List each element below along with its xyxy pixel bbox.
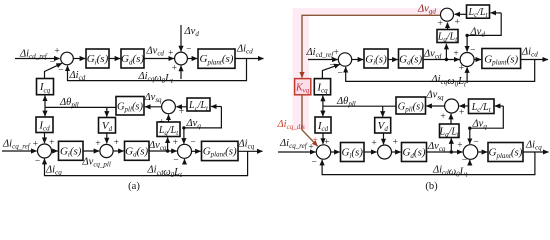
block Lc/Lt (a) [187, 98, 210, 111]
wire Gd to S3a with node v_cq (a) [149, 150, 177, 152]
svg-text:+: + [33, 139, 38, 149]
summing junction S4b (b q-axis error) [316, 145, 330, 159]
summing junction PLLb [445, 99, 459, 113]
block Lc/Lt top (b) [467, 5, 490, 18]
svg-text:−: − [58, 66, 63, 76]
svg-text:−: − [312, 157, 317, 167]
wire theta_pll horizontal (b) [323, 105, 396, 107]
block Icd (a) [36, 117, 53, 133]
wire pll sum output into Gpll (a) [145, 106, 162, 108]
wire S1b to Gi (b) [352, 59, 364, 61]
wire coupling term into S3b bottom (b) [469, 160, 471, 165]
wire Icd output into S4b top (b) [322, 133, 324, 144]
block Gi(s) q-axis (a) [59, 141, 84, 160]
wire S1a to Gi (a) [73, 58, 85, 60]
svg-text:Gi (s): Gi (s) [87, 53, 109, 66]
svg-text:+: + [179, 107, 184, 117]
svg-text:+: + [334, 48, 339, 58]
wire v_d corner path (b) [467, 13, 501, 36]
wire Gd to S2b with node v_cd (b) [423, 59, 460, 61]
svg-text:Gi (s): Gi (s) [60, 145, 82, 158]
svg-text:+: + [393, 137, 398, 147]
svg-text:+: + [308, 142, 313, 152]
summing junction S2b (b d-axis plant input) [460, 53, 474, 67]
wire Gplant to output d (a) [235, 58, 264, 60]
wire Lc/Lt output into Vgd sum (b) [455, 13, 467, 15]
block Lg/Lt (a) [157, 122, 180, 137]
wire theta to Icq (a) [44, 96, 46, 108]
block Vd (a) [99, 118, 116, 134]
svg-text:Gd (s): Gd (s) [125, 145, 148, 158]
summing junction S5a (a q-axis pll add) [100, 144, 113, 157]
svg-text:−: − [186, 45, 191, 55]
wire Lg/Lt output into PLLa bottom (a) [168, 115, 170, 122]
summing junction Vgd (b) [441, 8, 454, 21]
wire theta_pll horizontal (a) [45, 106, 116, 108]
svg-text:(a): (a) [128, 181, 140, 192]
svg-text:+: + [114, 138, 119, 148]
wire S3b to Gplant q (b) [478, 151, 487, 153]
node tap on v_cq wire (b) [450, 150, 453, 153]
wire input q-axis (b) [278, 151, 316, 153]
summing junction S2a (a d-axis plant input) [175, 52, 188, 65]
block Icq (b) [314, 79, 330, 95]
summing junction S1b (b d-axis error) [338, 53, 351, 66]
wire Icq output diagonal into S1b (b) [322, 64, 339, 78]
svg-text:Gd (s): Gd (s) [402, 147, 425, 160]
wire v_q down into S3a (a) [183, 128, 185, 144]
wire tap up into Lg/Lt (b) [445, 44, 447, 60]
svg-text:+: + [324, 137, 329, 147]
wire theta to Icd (a) [44, 107, 46, 116]
block Gpll(s) (a) [116, 97, 144, 116]
summing junction S1a (a d-axis error) [61, 52, 74, 65]
wire theta to Vd (a) [106, 107, 108, 116]
svg-text:Lc /Lt: Lc /Lt [188, 100, 209, 112]
block Vd (b) [375, 118, 391, 134]
summing junction S4a (a q-axis error) [38, 144, 52, 158]
wire Gi to S5a (a) [83, 150, 99, 152]
wire q-axis feedback (a) [45, 151, 248, 175]
wire v_d down into S2b (b) [466, 35, 468, 51]
wire v_q corner path (a) [184, 107, 222, 128]
svg-text:Gi (s): Gi (s) [341, 147, 363, 160]
svg-text:+: + [459, 64, 464, 74]
wire coupling term into S2a bottom (a) [180, 66, 182, 79]
wire S6b to Gd q (b) [392, 151, 401, 153]
block Gd(s) d-axis (b) [399, 49, 424, 68]
pink highlight band along Kvq feedforward path (horizontal) [295, 8, 441, 16]
block Lg/Lt top (b) [437, 30, 458, 43]
wire coupling term into S3a bottom (a) [184, 159, 186, 164]
node tap on v_cd wire (b) [445, 58, 448, 61]
svg-text:Gd (s): Gd (s) [399, 53, 422, 66]
summing junction S6b (b q-axis pll add) [378, 145, 392, 159]
wire v_d input into Lc/Lt (b) [491, 12, 502, 14]
svg-text:Gd (s): Gd (s) [121, 53, 144, 66]
wire Gplant to output d (b) [521, 59, 548, 61]
node delta-v_q junction (b) [468, 127, 471, 130]
block Icd (b) [315, 117, 331, 133]
wire Gd to S3b with node v_cq (b) [427, 151, 463, 153]
block Gplant(s) d-axis (a) [198, 49, 235, 68]
svg-text:Lg /Lt: Lg /Lt [158, 125, 179, 137]
svg-text:+: + [172, 64, 177, 74]
wire v_q down into S3b (b) [469, 128, 471, 144]
svg-text:+: + [440, 112, 445, 122]
wire v_q into Lc/Lt (a) [211, 106, 221, 108]
node tap on v_cq wire (a) [166, 149, 169, 152]
wire input q-axis (a) [2, 150, 37, 152]
block Lc/Lt q (b) [469, 99, 495, 114]
wire v_q corner path (b) [470, 106, 504, 128]
svg-text:(b): (b) [425, 181, 438, 192]
svg-text:Lg /Lt: Lg /Lt [439, 126, 460, 138]
block Gi(s) d-axis (b) [364, 49, 388, 68]
node delta-v_q junction (a) [182, 126, 185, 129]
wire q-axis feedback (b) [322, 152, 535, 175]
block Gplant(s) q-axis (a) [202, 141, 239, 160]
block Gd(s) q-axis (a) [125, 141, 150, 160]
svg-text:+: + [455, 17, 460, 27]
wire Lg/Lt output into PLLb bottom (b) [450, 114, 452, 124]
svg-text:−: − [190, 138, 195, 148]
block Icq (a) [37, 79, 54, 95]
wire theta to Vd (b) [382, 106, 384, 117]
block Lg/Lt q (b) [440, 124, 460, 138]
block Gi(s) q-axis (b) [341, 143, 365, 162]
wire delta-v_d into S2a (a) [180, 25, 182, 51]
svg-text:−: − [470, 46, 475, 56]
wire Lc/Lt output into PLLa sum (a) [176, 106, 187, 108]
wire input d-axis (b) [308, 59, 338, 61]
svg-text:+: + [168, 49, 173, 59]
wire input d-axis (a) [15, 58, 60, 60]
block Gpll(s) (b) [396, 97, 426, 114]
wire S2b to Gplant (b) [474, 59, 481, 61]
block Kvq red (b) [295, 79, 311, 95]
svg-text:+: + [459, 108, 464, 118]
wire Vd output into S5a top (a) [106, 133, 108, 143]
summing junction S3a (a q-axis plant input) [178, 144, 192, 158]
wire theta to Icd (b) [322, 106, 324, 116]
block Gd(s) d-axis (a) [121, 49, 144, 68]
wire Lg/Lt output into Vgd sum bottom (b) [447, 23, 449, 30]
wire S3a to Gplant q (a) [192, 150, 201, 152]
wire d-axis feedback (a) [68, 59, 247, 81]
wire Gplant to output q (b) [523, 151, 549, 153]
svg-text:+: + [453, 49, 458, 59]
node delta-v_d junction (b) [465, 34, 468, 37]
wire tap up into Lg/Lt q (b) [450, 138, 452, 152]
summing junction S3b (b q-axis plant input) [463, 145, 478, 160]
svg-text:+: + [371, 138, 376, 148]
wire d-axis feedback (b) [346, 60, 535, 82]
svg-text:+: + [95, 139, 100, 149]
svg-text:+: + [457, 141, 462, 151]
svg-text:−: − [473, 138, 478, 148]
svg-text:−: − [173, 155, 178, 165]
svg-text:−: − [35, 157, 40, 167]
wire Gi to Gd (b) [388, 59, 398, 61]
wire Gi to Gd (a) [109, 58, 120, 60]
svg-text:+: + [438, 19, 443, 29]
wire coupling term into S2b bottom (b) [466, 67, 468, 83]
svg-text:+: + [49, 138, 54, 148]
wire S4a to Gi q (a) [52, 150, 58, 152]
svg-text:+: + [54, 47, 59, 57]
wire red Kvq output down (b) [302, 95, 318, 146]
block Gd(s) q-axis (b) [402, 143, 427, 162]
wire Icq output diagonal into S1a (a) [45, 63, 62, 78]
block Gplant(s) q-axis (b) [488, 143, 523, 162]
svg-text:−: − [337, 68, 342, 78]
svg-text:−: − [462, 155, 467, 165]
wire Gd to S2a with node v_cd (a) [144, 58, 174, 60]
summing junction PLLa [162, 100, 176, 114]
svg-text:+: + [173, 138, 178, 148]
svg-text:Lg /Lt: Lg /Lt [437, 31, 458, 43]
wire S5a to Gd q (a) [113, 150, 124, 152]
svg-text:Lc /Lt: Lc /Lt [471, 102, 492, 114]
wire red feedforward from Vgd sum to Kvq (b) [302, 15, 441, 77]
pink highlight band along Kvq feedforward path (vertical) [293, 8, 310, 130]
wire tap up into Lg/Lt (a) [167, 137, 169, 151]
wire S4b to Gi q (b) [331, 151, 340, 153]
svg-text:Lc /Lt: Lc /Lt [468, 7, 489, 19]
wire Icd output into S4a top (a) [44, 133, 46, 144]
block Gi(s) d-axis (a) [86, 49, 109, 68]
wire theta to Icq (b) [322, 96, 324, 107]
block Gplant(s) d-axis (b) [482, 49, 521, 69]
wire Lc/Lt output into PLLb sum (b) [459, 105, 468, 107]
wire pll sum output into Gpll (b) [426, 105, 444, 107]
wire Vd output into S6b top (b) [383, 133, 385, 144]
wire Gi to S6b (b) [364, 151, 377, 153]
svg-text:Gi (s): Gi (s) [365, 53, 387, 66]
wire Gplant to output q (a) [238, 150, 263, 152]
wire v_q into Lc/Lt (b) [495, 105, 504, 107]
wire S2a to Gplant (a) [187, 58, 197, 60]
